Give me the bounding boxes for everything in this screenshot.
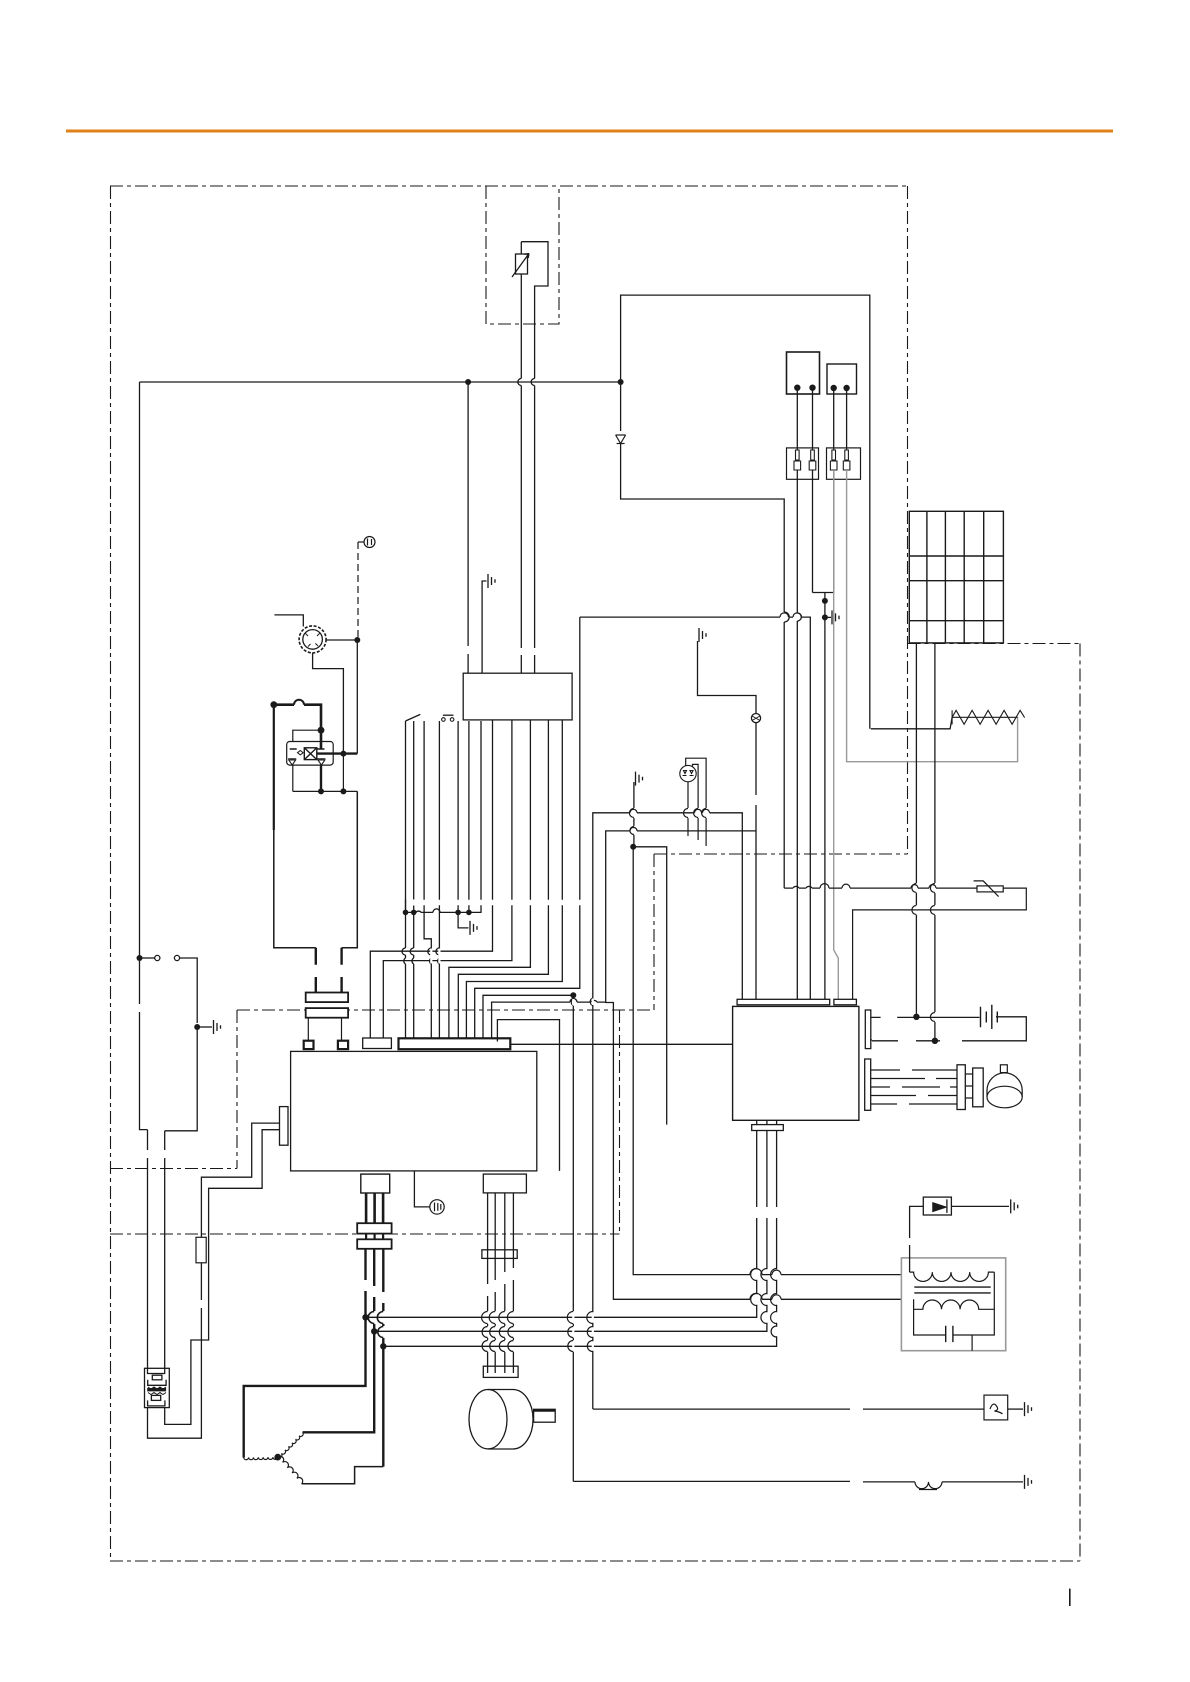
grid wire1 hops [912,884,917,915]
node bus b [411,910,417,916]
throttle sensor outline [521,242,548,324]
C1 lower pins [308,1018,341,1040]
zigzag right link [1017,716,1018,718]
thick wire into relay [320,730,323,748]
thermistor loop return [853,888,1027,999]
round connector P1 [299,626,326,653]
staircase wire2 [383,720,512,1038]
SW2 wire right [457,721,459,912]
ignition coil gray box [901,1258,1005,1351]
right box bottom connector [752,1125,784,1131]
x593 breaks [573,999,593,1351]
main bar connector C3 [399,1038,511,1049]
sensor wire hop right [531,379,535,386]
bus wire y912 [406,721,482,912]
fan motor connector top [483,1174,526,1193]
sensor unit dashed box [486,186,559,324]
right box bottom pin stubs [757,1120,777,1124]
ECM left tab [280,1107,289,1146]
bundle c jog hops [428,948,431,964]
fan motor body [469,1390,555,1450]
right box side tab2 [865,1059,871,1110]
grid wire2 hops [930,884,934,1022]
bundle d hops [436,948,439,964]
spade terminal T2 [338,1041,348,1049]
bullet terminals [794,450,850,470]
wire relay pin3 down [293,765,321,791]
gauge wire bottom [687,782,689,836]
stack bar1 [357,1223,391,1233]
harness leg right [340,948,342,993]
fuse component box B [827,364,857,394]
ground drain [197,1026,212,1028]
right control box [733,1006,859,1120]
coil primary winding [910,1272,995,1281]
spark plug [984,1395,1008,1420]
wire flasher feed2 [164,1131,166,1369]
wire G1 to node640 [357,542,359,640]
stack links [366,1234,383,1240]
switch SW2 contacts [442,718,446,722]
relay RL1 body [287,742,334,766]
heater grid block [909,511,1003,643]
gnd640 glyph [633,782,635,786]
lead C hops [377,1312,383,1338]
staircase wire5 [466,720,562,1038]
wire ground y780 [633,786,635,847]
H2 hops [630,827,781,1299]
right box vertical breaks [757,1207,777,1218]
wire switch left down [140,958,148,1130]
ECU main box [291,1051,537,1171]
node thick relay [318,727,325,734]
SW2 wire left [438,721,440,1038]
stair8 hops [570,999,597,1002]
ECM pin wires with staircase to small connector [370,720,492,1038]
grid drop wire1 [915,643,917,1017]
node H3 [630,844,636,850]
staircase wire9 [497,1020,559,1171]
bus hops [416,909,440,913]
fuse A leads [797,390,812,450]
x573 hops [567,999,573,1352]
gauge wires [686,758,706,846]
wire left drop x139.5 [139,382,141,958]
body ground circle G1 [358,537,375,548]
node y791 b [340,788,346,794]
thick feed wire top [274,705,321,731]
hops over H1 H2 [629,809,706,835]
connector bar C1b [306,1008,348,1018]
staircase wire3 [449,720,531,1038]
relay coil box [298,748,317,760]
fuse connector housing B [827,448,861,479]
relay contacts [290,748,325,750]
alternator stator windings [244,1432,304,1483]
inductor line [573,1480,915,1483]
node battery2 [932,1038,938,1044]
phase vertical breaks [757,1269,777,1336]
node 3phase C [380,1343,386,1349]
alternator thick lead A [244,1249,366,1458]
inductor ground [942,1481,1023,1483]
node bus a [403,910,409,916]
node SW0 left [137,955,143,961]
wire y791 to right edge [321,790,357,792]
node bus d [466,910,472,916]
harness loop left lower [274,791,358,947]
node battery1 [913,1014,919,1020]
wire y617 to right box [580,617,811,999]
grid drop wire2 [934,643,936,1041]
wire fuse up W1 [201,1123,279,1237]
left stop switch SW0 [140,955,198,1023]
fuse output wire gray x846 [847,470,1018,762]
hop x797 over y617 [797,613,801,621]
right box top bar1 [737,999,830,1005]
node stair7 [570,992,576,998]
fuse F1 [196,1237,206,1263]
harness loop left side [273,705,275,830]
orange header rule [66,130,1113,133]
bundle wire b [413,721,415,1038]
spade terminal T1 [304,1041,314,1049]
purge solenoid lines [871,1070,957,1104]
C3 right lead [510,1043,732,1045]
ECU bottom connector thick [361,1174,390,1193]
harness leg left [315,948,317,993]
fuse output wire black2 merge staple [813,470,834,999]
node stator star [274,1454,281,1461]
fuse output wire gray x833 [834,470,839,999]
wire flasher out1 U-loop [148,1263,202,1438]
fan connector low [483,1366,518,1377]
spark plug ground [1008,1408,1023,1410]
ground mid glyph [697,641,699,645]
zigzag left link [871,717,952,729]
coil capacitor [946,1326,953,1342]
H1 hops [630,809,710,812]
wire P1 bottom jog [313,653,344,754]
staircase wire7 [483,995,573,1038]
staircase wire8 [492,1002,606,1038]
fuse B leads [834,390,847,450]
ground pin wire x482 [482,581,486,673]
bus ground stub [458,912,468,928]
IACV motor [987,1065,1022,1108]
fuse A terminal dots [794,385,800,391]
diode unit wire [910,1206,924,1272]
right box top bar2 [834,999,857,1005]
node relay out [340,751,346,757]
node drain gnd [194,1024,200,1030]
diode unit ground [951,1205,1009,1207]
wire relay pin1 up [293,730,321,741]
fuse box enclosure wire loop [621,295,870,888]
staircase wire6 [475,617,580,1038]
H3 hops [750,1269,781,1275]
bundle breaks mask [414,900,580,964]
ECM pin wire x469 [468,721,470,912]
battery BT1 [981,1005,998,1029]
switch SW1 blade [406,714,421,912]
sensor wire hop left [518,379,522,386]
staircase wire4 [458,720,548,1038]
node thick left [270,701,277,708]
fuse output wire black1 x797 [796,470,798,999]
node bus382-mid [465,379,471,385]
fuse connector housing A [787,448,819,479]
wire ind1 down [755,723,757,1000]
bundle b hops [410,948,413,964]
node 3phase A [362,1314,368,1320]
solenoid links [965,1074,972,1098]
lead B hop [368,1312,374,1324]
three phase line C [383,1131,776,1347]
coil inner links [914,1272,995,1351]
right box side tab1 [865,1010,871,1049]
node staple gnd tap [822,614,828,620]
page number tick [1069,1589,1071,1606]
fuse drop wire to thermistor [784,887,977,889]
solenoid plate2 [973,1068,984,1107]
relay thick output [317,752,358,754]
wire ECM pin1 drop x468 [467,382,469,673]
coil secondary winding [914,1300,995,1309]
wire flasher out2 W2 [165,1130,280,1425]
node staple mid [822,598,828,604]
wire P1 right to node [326,639,357,641]
sensor wire left [520,242,522,673]
hop x784 over y617 [784,612,789,622]
indicator circle ind1 [751,714,760,723]
fan motor wires [488,1193,514,1373]
solenoid plate1 [957,1065,965,1110]
stack bar2 [357,1239,391,1249]
node y791 a [318,788,324,794]
connector bar C1a [306,993,348,1003]
flasher relay FR1 [145,1368,170,1407]
wire H2 coil1 path [606,831,902,1299]
ground bus [470,921,477,935]
three phase line B [374,1131,767,1332]
wire flasher feed1 [147,1130,149,1369]
ground above box [488,574,495,588]
ECU ground stub [414,1171,429,1207]
gauge circle cluster [680,765,696,781]
fuse component box A [787,352,820,394]
bundle a hops [402,948,406,964]
node P1-right [354,637,360,643]
switch SW2 button bar [443,714,454,716]
wire x593 hops [587,998,593,1352]
switch SW1 contact wire [424,721,431,1038]
wire x343 mid drop [342,754,344,792]
wire H1 ignition [593,813,984,1409]
three phase line A [366,1131,757,1318]
ground at fuse merge [825,616,831,618]
fan motor wire hops [482,1312,514,1352]
hops on phase verticals [751,1269,777,1338]
wire H3 coil2 path [633,847,901,1275]
bundle wire a down [405,900,407,1039]
coil core [914,1287,990,1293]
resistor zigzag heater [952,710,1025,724]
sensor wire right [534,324,536,673]
inductor L1 [915,1482,942,1490]
thick pins to stack [366,1193,383,1223]
node bus382-right [618,379,624,385]
main bus wire y382 [140,381,621,383]
main unit dash-dot border [110,186,1080,1561]
battery feed line [870,1017,1026,1041]
hop thick top [294,700,304,705]
node bus c [455,910,461,916]
ground circle G2 [430,1200,444,1214]
wire x357 drop to relay line [356,640,358,754]
wire x573 long drop [572,995,574,1481]
diode D1 [616,435,626,444]
variable resistor R-sensor [512,254,529,278]
fan connector mid [482,1250,517,1259]
diode unit box [923,1197,951,1215]
thick wire relay pin4 down [320,765,322,791]
relay bottom pin glyphs [288,759,325,765]
node 3phase B [371,1328,377,1334]
fuse B terminal dots [831,385,837,391]
thermistor hops [793,884,936,889]
y617 hops [780,613,802,617]
small connector C2 [363,1038,392,1049]
sensor unit connector box [463,673,572,720]
thermistor TH1 [974,881,1004,897]
alternator thick lead C [382,1249,384,1467]
wire drain down [165,1027,198,1131]
alternator thick lead B [303,1249,375,1433]
wire relay horizontal y615 [274,615,303,627]
ground wire mid [698,645,757,714]
